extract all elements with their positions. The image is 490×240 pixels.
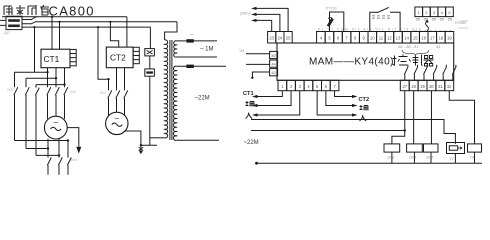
svg-text:40: 40	[271, 53, 276, 58]
crossover wire H1 lower	[15, 140, 69, 142]
svg-text:~22M: ~22M	[244, 140, 259, 146]
label 入 (CJK strokes)	[246, 113, 253, 119]
power wire H2	[251, 130, 405, 132]
faint mark above fuse	[190, 34, 194, 36]
CT2 terminal comb	[133, 47, 139, 63]
crossover wire H3 lower	[36, 154, 59, 156]
wire terminal28 to coil K2	[413, 91, 415, 144]
underbrace	[402, 50, 429, 55]
left-edge terminals 40 44 42	[270, 51, 278, 58]
svg-text:3KM: 3KM	[71, 158, 78, 162]
contactor KM4 blades (motor2)	[108, 90, 128, 98]
svg-text:3KM: 3KM	[426, 156, 433, 160]
wire L1 end to CT2	[126, 17, 128, 47]
temperature sensor PT100 loop	[330, 12, 344, 32]
svg-text:27: 27	[403, 84, 408, 89]
svg-text:RS485: RS485	[455, 21, 466, 25]
left wire to terminal 44	[246, 63, 270, 65]
transformer secondary winding A	[174, 41, 177, 57]
motor M2 circle	[106, 112, 128, 134]
svg-text:~ 1M: ~ 1M	[200, 47, 214, 53]
motor M1 circle	[44, 116, 67, 139]
transformer primary bottom wire	[150, 137, 165, 139]
contactor KM1 blades (motor1 main)	[47, 87, 68, 95]
delta column wires upper	[15, 72, 37, 87]
relay coil K4	[468, 144, 482, 152]
disconnect blade on L1	[22, 16, 37, 20]
top-right terminal block 1-5	[415, 7, 423, 17]
relay coil K3	[424, 144, 439, 152]
CT2 input wires with arrows	[317, 91, 352, 115]
relay coil K1	[384, 144, 400, 152]
svg-text:QF: QF	[4, 30, 10, 35]
svg-text:CT1: CT1	[243, 91, 254, 97]
svg-text:CT1: CT1	[44, 54, 60, 64]
top-left terminals 23 24 25	[268, 32, 276, 44]
delta link wire H1	[15, 71, 48, 73]
contactor KM3 blades (star)	[47, 157, 71, 165]
power input annotation wires with arrows	[256, 8, 288, 31]
transformer secondary winding B	[173, 66, 176, 140]
motor1 winding-end leads	[48, 138, 68, 158]
pressure switch label	[372, 16, 390, 19]
controller box MAM-KY4(40)	[277, 43, 454, 80]
motor1 phase wires into motor	[48, 95, 65, 119]
svg-text:PT100: PT100	[326, 7, 337, 11]
svg-text:42: 42	[271, 70, 276, 75]
pressure switch	[370, 7, 400, 31]
svg-text:32: 32	[447, 84, 452, 89]
controller label 控制器 (CJK strokes)	[393, 55, 434, 67]
transformer primary winding	[165, 40, 168, 138]
svg-text:10: 10	[370, 36, 375, 41]
delta link wire H3	[36, 84, 65, 86]
svg-text:24: 24	[278, 36, 283, 41]
left hook wire to terminal 42	[252, 72, 269, 77]
tap wire to transformer bottom	[149, 76, 151, 145]
svg-text:31: 31	[438, 84, 443, 89]
motor1 phase wires from CT1	[48, 68, 65, 88]
svg-text:29: 29	[420, 84, 425, 89]
secondary A top wire	[177, 40, 217, 42]
delta bypass wire from L3	[34, 27, 36, 72]
contactor KM2 blades (delta)	[14, 87, 40, 95]
motor M1 tilde symbol	[51, 127, 62, 130]
fuse FU box on tap	[145, 69, 155, 76]
svg-text:16: 16	[421, 36, 426, 41]
label 输 (CJK strokes)	[246, 101, 255, 107]
bottom-right terminal strip 27-32	[400, 80, 409, 90]
tiny row above right terminals	[414, 30, 452, 32]
label 输 2 (CJK strokes)	[360, 105, 369, 111]
star column tails	[48, 165, 68, 175]
watermark text 版权所有CA800 (CJK drawn as strokes)	[4, 5, 49, 15]
power wire H1	[251, 120, 455, 144]
fuse on secondary A	[186, 39, 193, 42]
svg-text:41: 41	[436, 44, 441, 49]
wire terminal27 to coil K1	[392, 91, 405, 144]
svg-text:1M: 1M	[239, 49, 244, 53]
left wire to terminal 40	[246, 53, 270, 55]
delta link wire H2	[26, 77, 56, 79]
delta column wires lower	[15, 95, 37, 155]
motor M2 ground tap wire	[125, 131, 141, 145]
svg-text:1KM: 1KM	[70, 90, 77, 94]
primary return wire	[141, 144, 157, 146]
svg-text:YV: YV	[449, 157, 454, 161]
labels under block	[416, 19, 452, 21]
motor2 phase wires into motor	[109, 98, 125, 116]
relay coil K2	[407, 144, 423, 152]
svg-text:23: 23	[269, 36, 274, 41]
svg-text:18: 18	[439, 36, 444, 41]
bus wire L2	[36, 21, 177, 23]
supply stub wires into QF	[0, 20, 6, 25]
svg-text:17: 17	[430, 36, 435, 41]
motor M1 earth tap wire	[67, 128, 79, 147]
motor M2 tilde symbol	[112, 123, 122, 126]
transformer core lines	[170, 40, 172, 140]
svg-text:15: 15	[413, 36, 418, 41]
motor2 phase wires from CT2	[109, 68, 125, 91]
bus wire L3	[22, 26, 150, 28]
current transformer CT1 box	[41, 49, 70, 67]
transformer feed wire from L2	[165, 22, 177, 40]
current transformer CT2 box	[106, 47, 133, 68]
svg-text:(380V): (380V)	[240, 12, 251, 16]
svg-text:14: 14	[404, 36, 409, 41]
wire L2 to CT2 (jog)	[110, 22, 118, 47]
svg-text:2KM: 2KM	[409, 156, 416, 160]
disconnect blade on L2	[22, 22, 36, 25]
control tap wire from L3	[149, 27, 151, 48]
svg-text:13: 13	[396, 36, 401, 41]
circuit breaker QF box	[6, 16, 22, 29]
faint marks right of block	[458, 21, 468, 28]
crossover wire H2 lower	[26, 148, 48, 150]
secondary B top wire	[177, 65, 226, 67]
ground arrow at motor M1	[76, 147, 81, 154]
wire L1 to CT1	[51, 17, 53, 50]
svg-text:12: 12	[387, 36, 392, 41]
CT1 terminal comb	[70, 49, 76, 65]
fuse on secondary B	[186, 65, 193, 68]
svg-text:MAM——KY4(40): MAM——KY4(40)	[309, 57, 394, 68]
wire terminal32 to valve Y1	[449, 91, 474, 144]
svg-text:CT2: CT2	[110, 53, 126, 63]
svg-text:1KM: 1KM	[387, 156, 394, 160]
panel-cable squiggle arrow	[426, 21, 429, 31]
three-phase bus wire L1 (with watermark underline)	[2, 16, 127, 18]
solenoid valve Y1 box	[447, 143, 465, 154]
wire L2 to CT1	[59, 22, 61, 49]
plug/knife switch box on tap	[145, 49, 155, 56]
svg-text:11: 11	[379, 36, 384, 41]
top terminal strip 4-19	[317, 32, 326, 44]
secondary A bottom wire	[177, 56, 217, 58]
relay output contacts inside controller	[404, 65, 408, 81]
svg-text:44: 44	[271, 62, 276, 67]
label 入 2 (CJK strokes)	[360, 115, 367, 121]
coil return stubs	[392, 152, 475, 163]
svg-text:25: 25	[286, 36, 291, 41]
svg-text:26 - 28 - 31: 26 - 28 - 31	[398, 44, 419, 49]
svg-text:19: 19	[447, 36, 452, 41]
svg-text:28: 28	[411, 84, 416, 89]
svg-text:30: 30	[429, 84, 434, 89]
svg-text:~22M: ~22M	[195, 96, 210, 102]
svg-text:4KM: 4KM	[100, 91, 107, 95]
CT1 input wires with arrows	[257, 91, 300, 115]
bottom-left terminal strip 1-7	[278, 80, 287, 90]
tap wire between boxes	[149, 56, 151, 69]
earth mark at motor M2	[140, 145, 142, 150]
secondary B bottom wire	[177, 139, 219, 141]
svg-text:CT2: CT2	[359, 97, 370, 103]
motor2 bypass wire from L3	[98, 27, 109, 79]
neutral bus wire	[256, 162, 482, 164]
wire terminal30 to coil K3	[430, 91, 432, 144]
star contactor column wires	[48, 149, 59, 158]
svg-text:2KM: 2KM	[7, 88, 14, 92]
